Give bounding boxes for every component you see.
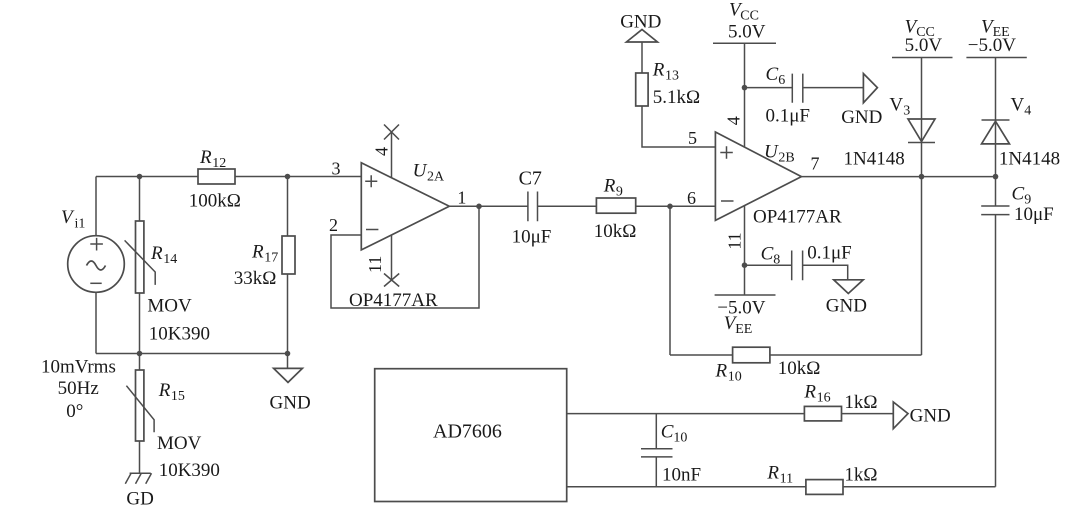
svg-text:R: R [199,147,212,168]
ground arrow right (R16) [893,402,908,429]
wire left vertical above source [95,177,97,236]
node bottom-left junction [137,351,143,357]
node R9 right junction [667,204,673,210]
svg-text:6: 6 [778,73,785,88]
resistor R10 [670,347,922,363]
svg-text:5.0V: 5.0V [905,35,943,56]
node C6 tap junction [742,85,748,91]
label 10nF [662,465,701,486]
capacitor C8 [745,251,848,281]
svg-text:3: 3 [332,159,341,179]
label C8 [761,244,781,268]
svg-text:5.0V: 5.0V [728,22,766,43]
svg-text:U: U [764,142,779,163]
label R15 [158,380,185,404]
earth ground GD symbol [125,473,151,484]
node C8 tap junction [742,262,748,268]
svg-text:R: R [158,380,171,401]
label 1k ohm (R11) [844,465,877,486]
label C6 [766,64,786,88]
label 5.0V (above U2B) [728,22,766,43]
svg-text:15: 15 [171,389,185,404]
svg-text:9: 9 [616,185,623,200]
label R14 [150,243,177,267]
label 10uF (C7) [512,227,552,248]
svg-text:1kΩ: 1kΩ [844,465,877,486]
svg-text:2A: 2A [427,170,445,185]
label VCC (above V3) [905,17,935,41]
label Vi1 [61,207,85,232]
svg-text:0.1μF: 0.1μF [807,243,852,264]
svg-text:4: 4 [372,147,392,156]
svg-text:C: C [661,422,674,443]
label VCC (above U2B) [729,0,759,24]
label GND (C6) [841,107,882,128]
label 0 deg [66,401,83,422]
svg-text:8: 8 [773,253,780,268]
IC AD7606 box [375,369,567,502]
capacitor C9 [981,177,1009,487]
svg-text:10μF: 10μF [1014,204,1054,225]
node V3 junction [919,174,925,180]
ground arrow up (above R13) [626,30,657,43]
pin 6 label [687,188,696,208]
capacitor C7 [528,192,597,222]
svg-text:MOV: MOV [147,296,192,317]
svg-text:12: 12 [212,156,226,171]
svg-text:GD: GD [126,489,153,510]
VEE supply bar (below U2B) [715,294,776,296]
label -5.0V (below U2B) [717,297,765,318]
wire left vertical below source [95,292,97,353]
label U2B [764,142,795,166]
svg-text:C: C [766,64,779,85]
svg-text:16: 16 [817,391,831,406]
wire AD7606 top output [567,413,805,415]
svg-text:AD7606: AD7606 [433,421,502,443]
label 1N4148 (V4) [999,149,1060,170]
svg-text:10mVrms: 10mVrms [41,356,116,377]
AC source V_i1 [68,236,125,293]
VCC supply bar (V3) [892,57,953,59]
ground symbol under R17 [274,368,303,382]
resistor R9 [596,198,715,213]
label 10K390 (R15) [159,460,220,481]
label 0.1uF (C8) [807,243,852,264]
label OP4177AR (U2B) [753,207,842,228]
resistor R11 [806,480,996,495]
label C7 [519,168,542,190]
svg-text:4: 4 [1024,104,1031,119]
svg-text:0°: 0° [66,401,83,422]
label 10k ohm (R9) [594,221,637,242]
pin 11 label U2B (rotated) [725,232,745,249]
label 33k ohm [234,268,277,289]
svg-text:1N4148: 1N4148 [844,149,905,170]
svg-text:2: 2 [329,215,338,235]
svg-text:C: C [761,244,774,265]
svg-text:10: 10 [728,370,742,385]
label 1N4148 (V3) [844,149,905,170]
label 5.1k ohm [653,87,700,108]
label VEE (below U2B) [724,313,753,337]
svg-text:U: U [413,161,428,182]
svg-text:V: V [61,207,75,228]
label V4 [1011,95,1032,119]
svg-text:7: 7 [811,154,820,174]
label C10 [661,422,688,446]
svg-text:11: 11 [780,472,793,487]
VEE supply bar (V4) [966,57,1026,59]
VCC supply bar (above U2B) [713,42,776,44]
svg-text:2B: 2B [778,151,794,166]
capacitor C6 [745,74,864,103]
svg-text:5: 5 [688,128,697,148]
op-amp U2B [715,132,801,220]
svg-text:1N4148: 1N4148 [999,149,1060,170]
svg-text:OP4177AR: OP4177AR [753,207,842,228]
svg-text:i1: i1 [75,217,86,232]
no-connect X (U2A pin 4) [384,125,399,140]
svg-text:V: V [1011,95,1025,116]
svg-text:14: 14 [163,252,177,267]
node top-right junction [285,174,291,180]
ground symbol (C8) [834,280,864,294]
label MOV (R14) [147,296,192,317]
node top-left junction [137,174,143,180]
svg-text:C7: C7 [519,168,542,190]
svg-text:GND: GND [620,12,661,33]
label 10mVrms [41,356,116,377]
svg-text:GND: GND [270,393,311,414]
label OP4177AR (U2A) [349,290,438,311]
label R17 [251,242,278,266]
label R16 [803,382,830,406]
svg-text:R: R [803,382,816,403]
svg-text:6: 6 [687,188,696,208]
wire bottom rail [96,353,288,355]
resistor R12 [198,169,235,184]
pin 7 label [811,154,820,174]
svg-text:GND: GND [910,406,951,427]
label 50Hz [58,378,99,399]
svg-text:1kΩ: 1kΩ [844,392,877,413]
svg-text:11: 11 [725,232,745,249]
svg-text:17: 17 [264,251,278,266]
wire top rail from source to U2A pin3 [96,176,361,178]
varistor R14 [125,177,156,354]
label V3 [889,95,910,119]
label GD [126,489,153,510]
label GND (C8) [826,295,867,316]
wire R10 up to output rail [921,177,923,355]
label GND (above R13) [620,12,661,33]
svg-text:10nF: 10nF [662,465,701,486]
wire AD7606 bottom output [567,486,806,488]
svg-text:10: 10 [673,431,687,446]
label 100k ohm [189,191,241,212]
svg-text:10K390: 10K390 [159,460,220,481]
svg-text:GND: GND [826,295,867,316]
wire feedback node down to R10 [669,206,671,355]
label R9 [603,176,623,200]
svg-text:MOV: MOV [157,433,202,454]
svg-text:R: R [251,242,264,263]
resistor R17 [282,177,295,369]
label R12 [199,147,226,171]
pin 4 label U2B (rotated) [723,116,743,125]
svg-text:13: 13 [665,69,679,84]
svg-text:10kΩ: 10kΩ [778,358,821,379]
label GND (under R17) [270,393,311,414]
label 5.0V (above V3) [905,35,943,56]
varistor R15 [126,354,154,474]
no-connect X (U2A pin 11) [384,274,399,287]
output wire U2A [449,205,528,207]
pin 11 label (rotated) [365,256,385,273]
label R13 [652,60,679,84]
svg-text:5.1kΩ: 5.1kΩ [653,87,700,108]
label 1k ohm (R16) [844,392,877,413]
svg-text:EE: EE [735,322,752,337]
svg-text:R: R [652,60,665,81]
label 10uF (C9) [1014,204,1054,225]
label -5.0V (above V4) [968,35,1016,56]
capacitor C10 [641,414,673,487]
label AD7606 [433,421,502,443]
label 10k ohm (R10) [778,358,821,379]
svg-text:50Hz: 50Hz [58,378,99,399]
label GND (R16) [910,406,951,427]
svg-text:10K390: 10K390 [149,324,210,345]
diode V4 [982,58,1010,177]
svg-text:100kΩ: 100kΩ [189,191,241,212]
label MOV (R15) [157,433,202,454]
svg-text:11: 11 [365,256,385,273]
label VEE (above V4) [981,17,1010,41]
output rail U2B [801,176,995,178]
svg-text:R: R [150,243,163,264]
svg-text:V: V [889,95,903,116]
label C9 [1012,184,1032,208]
pin 11 wire (U2A) [391,235,393,281]
label R10 [715,361,742,385]
pin 3 label [332,159,341,179]
svg-text:−5.0V: −5.0V [968,35,1016,56]
svg-text:R: R [715,361,728,382]
diode V3 [908,58,935,177]
resistor R13 [636,42,716,147]
pin 11 wire (U2B) [744,206,746,295]
svg-text:33kΩ: 33kΩ [234,268,277,289]
node U2A output junction [476,204,482,210]
label 10K390 (R14) [149,324,210,345]
pin 1 label [457,188,466,208]
svg-text:3: 3 [903,104,910,119]
op-amp U2A [361,163,449,250]
ground arrow right (C6) [863,74,877,103]
pin 2 label [329,215,338,235]
pin 4 wire (U2B) [744,43,746,147]
svg-text:1: 1 [457,188,466,208]
node V4 junction [993,174,999,180]
svg-text:4: 4 [723,116,743,125]
resistor R16 [804,406,893,421]
svg-text:R: R [603,176,616,197]
svg-text:GND: GND [841,107,882,128]
svg-text:10kΩ: 10kΩ [594,221,637,242]
svg-text:10μF: 10μF [512,227,552,248]
svg-text:C: C [1012,184,1025,205]
pin 4 wire (U2A) [391,133,393,178]
label 0.1uF (C6) [766,106,811,127]
pin 5 label [688,128,697,148]
pin 6 wire [670,205,715,207]
node bottom-right junction [285,351,291,357]
svg-text:0.1μF: 0.1μF [766,106,811,127]
label U2A [413,161,445,185]
feedback wire U2A pin2 loop [331,206,479,308]
pin 4 label (rotated) [372,147,392,156]
svg-text:R: R [766,463,779,484]
label R11 [766,463,793,487]
